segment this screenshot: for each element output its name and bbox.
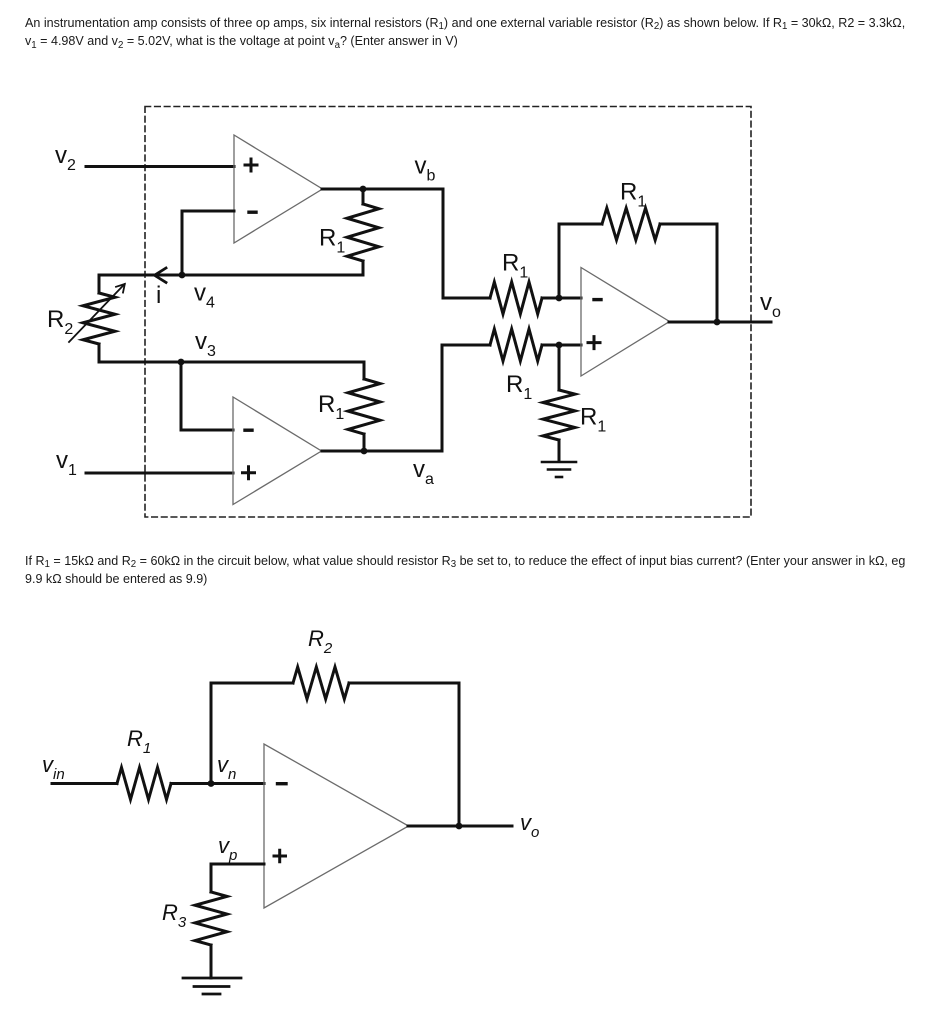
svg-text:i: i xyxy=(156,282,161,309)
svg-text:va: va xyxy=(413,456,434,488)
wire R2 feedback left leg xyxy=(211,683,293,784)
wire into U3 inverting input xyxy=(542,297,581,300)
wire into U3 non-inverting input xyxy=(542,344,581,347)
current arrow i xyxy=(155,268,167,283)
resistor R1 (U3 plus to ground, vertical) xyxy=(543,345,575,461)
svg-text:v2: v2 xyxy=(55,142,76,174)
wire U1 inverting input from v4 node xyxy=(182,211,234,275)
resistor R1 (vb arm, horizontal) xyxy=(490,282,542,314)
op-amp U3 (right) xyxy=(581,268,670,377)
op-amp U1 (top left) xyxy=(234,135,323,243)
ground (circuit 1) xyxy=(542,462,576,477)
svg-text:vo: vo xyxy=(520,810,539,841)
svg-text:R1: R1 xyxy=(318,391,344,423)
op-amp U2 (bottom left) xyxy=(233,397,322,505)
svg-text:R1: R1 xyxy=(506,371,532,403)
svg-text:R3: R3 xyxy=(162,900,187,931)
wire U4 output xyxy=(408,825,512,828)
wire vb arm (down and to U3 minus lead) xyxy=(443,189,490,298)
svg-text:vo: vo xyxy=(760,289,781,321)
svg-text:R1: R1 xyxy=(127,726,151,757)
node vn junction xyxy=(208,780,215,787)
op-amp U4 (circuit 2) xyxy=(264,744,409,908)
node vo junction (circuit 2) xyxy=(456,823,463,830)
svg-text:R1: R1 xyxy=(580,404,606,436)
wire U3 feedback left leg xyxy=(559,224,602,298)
resistor R2 (circuit 2 feedback, horizontal) xyxy=(293,667,349,699)
resistor R1 (U3 feedback, horizontal) xyxy=(602,208,660,240)
wire vp to R3 xyxy=(211,864,264,892)
wire R1 to U4 inverting input xyxy=(171,782,264,785)
svg-text:R1: R1 xyxy=(620,179,646,211)
resistor R1 (U1 feedback, vertical) xyxy=(347,189,379,275)
svg-text:v4: v4 xyxy=(194,280,215,312)
wire U2 inverting input from v3 node xyxy=(181,362,233,430)
R2 wiper arrow xyxy=(69,284,125,342)
instrumentation amp boundary (dashed box) xyxy=(145,107,751,518)
wire vin lead xyxy=(52,782,117,785)
svg-text:vin: vin xyxy=(42,752,65,783)
wire v2 input to U1 + xyxy=(86,165,234,168)
svg-text:v1: v1 xyxy=(56,447,77,479)
node U3 plus junction xyxy=(556,342,563,349)
svg-text:R1: R1 xyxy=(319,225,345,257)
node v3 junction xyxy=(178,359,185,366)
node vo junction xyxy=(714,319,721,326)
svg-text:R2: R2 xyxy=(308,626,333,657)
wire v3 rail xyxy=(99,361,364,364)
resistor R1 (U2 feedback, vertical) xyxy=(348,362,380,451)
svg-text:vn: vn xyxy=(217,752,236,783)
resistor R2 (external variable, vertical) xyxy=(83,275,115,362)
wire v1 input to U2 + xyxy=(86,472,233,475)
wire R2 feedback right leg xyxy=(349,683,459,826)
svg-text:R2: R2 xyxy=(47,306,73,338)
wire U3 output vo xyxy=(669,321,771,324)
resistor R1 (va arm, horizontal) xyxy=(490,329,542,361)
node vb junction xyxy=(360,186,367,193)
resistor R1 (circuit 2 input, horizontal) xyxy=(117,768,171,800)
wire U2 output to va corner xyxy=(322,450,442,453)
wire U3 feedback right leg xyxy=(660,224,717,322)
ground (circuit 2) xyxy=(183,978,241,994)
svg-text:vp: vp xyxy=(218,833,237,864)
wire U1 output to vb corner xyxy=(322,188,443,191)
svg-text:vb: vb xyxy=(415,153,436,185)
wire v4 feedback rail xyxy=(99,274,363,277)
node v4 junction xyxy=(179,272,186,279)
resistor R3 (vertical) xyxy=(195,892,227,978)
wire va arm (up and to U3 plus lead) xyxy=(442,345,490,451)
node U3 minus junction xyxy=(556,295,563,302)
svg-text:R1: R1 xyxy=(502,250,528,282)
node va junction xyxy=(361,448,368,455)
svg-text:v3: v3 xyxy=(195,328,216,360)
